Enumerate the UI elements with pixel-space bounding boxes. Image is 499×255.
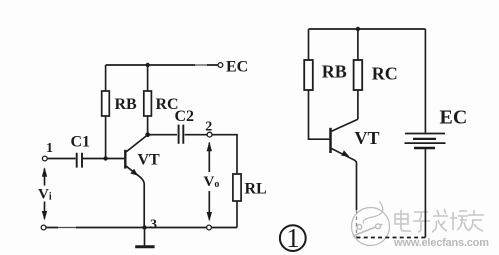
svg-text:RL: RL [245,181,267,198]
svg-text:RC: RC [372,64,398,84]
svg-text:3: 3 [150,218,157,233]
svg-text:1: 1 [286,223,300,253]
svg-text:VT: VT [355,128,380,148]
svg-text:Vo: Vo [204,174,220,190]
svg-text:VT: VT [138,152,161,169]
svg-text:RB: RB [322,62,347,82]
svg-text:EC: EC [226,59,248,76]
svg-text:C1: C1 [71,134,91,151]
svg-text:2: 2 [205,120,212,135]
svg-text:C2: C2 [175,108,195,125]
svg-text:Vi: Vi [38,187,52,203]
svg-text:EC: EC [440,107,468,129]
svg-text:1: 1 [46,141,53,156]
svg-text:www.elecfans.com: www.elecfans.com [393,237,489,249]
svg-text:RB: RB [115,96,138,113]
